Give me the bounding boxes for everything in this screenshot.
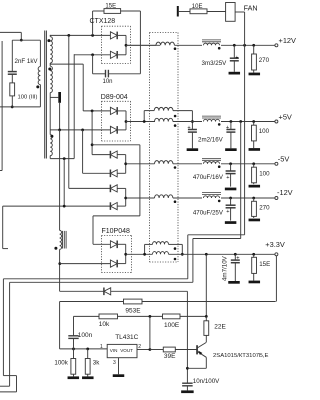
svg-text:+: + bbox=[236, 255, 239, 261]
svg-text:15E: 15E bbox=[105, 4, 116, 10]
svg-text:+: + bbox=[226, 209, 229, 215]
svg-text:470uF/25V: 470uF/25V bbox=[193, 209, 224, 216]
svg-text:15E: 15E bbox=[259, 261, 270, 268]
svg-text:10k: 10k bbox=[99, 321, 110, 328]
svg-text:1: 1 bbox=[100, 344, 103, 350]
svg-text:D89-004: D89-004 bbox=[101, 94, 128, 101]
svg-text:CTX128: CTX128 bbox=[90, 18, 116, 25]
svg-text:10n: 10n bbox=[103, 79, 113, 85]
svg-text:10n/100V: 10n/100V bbox=[193, 378, 220, 385]
svg-text:+5V: +5V bbox=[279, 113, 292, 122]
svg-text:953E: 953E bbox=[125, 308, 141, 315]
svg-text:+12V: +12V bbox=[279, 36, 297, 45]
svg-text:-5V: -5V bbox=[278, 155, 290, 164]
svg-text:3k: 3k bbox=[93, 360, 100, 367]
svg-text:2nF 1kV: 2nF 1kV bbox=[15, 58, 39, 65]
svg-text:2SA1015/КТ3107Б,Е: 2SA1015/КТ3107Б,Е bbox=[213, 353, 269, 359]
svg-text:2m2/16V: 2m2/16V bbox=[198, 137, 224, 144]
svg-text:10E: 10E bbox=[192, 4, 203, 10]
svg-text:VIN: VIN bbox=[110, 348, 118, 353]
svg-text:2: 2 bbox=[138, 344, 141, 350]
svg-text:100: 100 bbox=[259, 128, 270, 135]
svg-text:270: 270 bbox=[259, 57, 270, 64]
svg-text:100: 100 bbox=[259, 170, 270, 177]
svg-text:3m3/25V: 3m3/25V bbox=[202, 60, 228, 67]
svg-text:100n: 100n bbox=[78, 332, 93, 339]
svg-text:22E: 22E bbox=[214, 323, 226, 330]
svg-text:470uF/16V: 470uF/16V bbox=[193, 174, 224, 181]
svg-text:100E: 100E bbox=[164, 322, 180, 329]
svg-text:-12V: -12V bbox=[277, 188, 293, 197]
svg-text:FAN: FAN bbox=[244, 3, 258, 12]
svg-text:+3.3V: +3.3V bbox=[265, 240, 285, 249]
svg-text:3: 3 bbox=[113, 360, 116, 366]
svg-text:TL431C: TL431C bbox=[115, 334, 138, 341]
svg-text:+: + bbox=[226, 125, 229, 131]
svg-text:4m7/10V: 4m7/10V bbox=[222, 255, 229, 281]
svg-text:VOUT: VOUT bbox=[120, 348, 133, 353]
svg-text:+: + bbox=[187, 125, 190, 131]
svg-text:100 (III): 100 (III) bbox=[18, 94, 38, 100]
svg-text:39E: 39E bbox=[164, 353, 176, 360]
svg-text:+: + bbox=[235, 55, 238, 61]
svg-text:F10P048: F10P048 bbox=[102, 228, 131, 235]
svg-text:100k: 100k bbox=[54, 360, 68, 367]
svg-text:+: + bbox=[226, 175, 229, 181]
svg-text:270: 270 bbox=[259, 205, 270, 212]
